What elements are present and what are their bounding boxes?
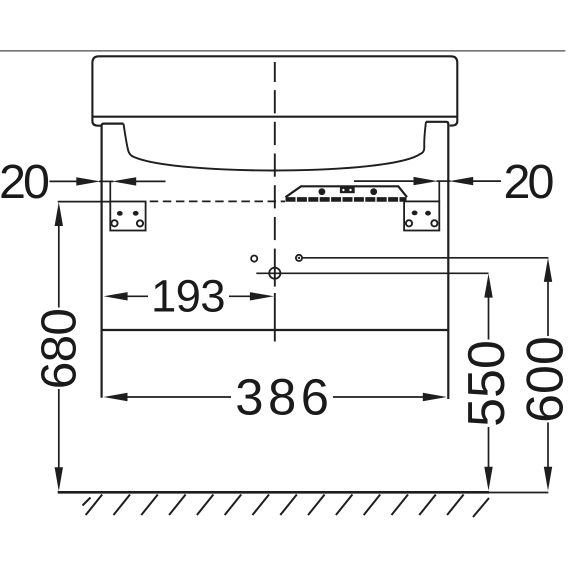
floor hatching (83, 495, 490, 518)
dim 20 right (354, 180, 415, 182)
ref line 550 (256, 272, 488, 274)
bracket right (404, 201, 439, 230)
dim 193 (104, 292, 128, 300)
dim 550 (484, 274, 492, 298)
wall rail bolt right (370, 188, 377, 195)
washbasin outer rim (92, 56, 457, 125)
dim 600 (544, 258, 552, 282)
extension 20 left (109, 181, 111, 201)
svg-text:600: 600 (516, 336, 568, 423)
svg-text:386: 386 (235, 369, 333, 426)
cabinet right side + pedestal top right (426, 122, 448, 399)
wall rail serrated base (286, 197, 407, 202)
bracket left (110, 202, 145, 231)
dim 680 (55, 202, 63, 226)
floor line (58, 491, 489, 494)
wall line (0, 50, 565, 52)
cabinet left side + pedestal top left (102, 124, 124, 398)
extension 20 right (438, 181, 440, 201)
washbasin bottom chord (92, 116, 457, 118)
svg-text:20: 20 (0, 155, 49, 209)
centerline dashed (274, 62, 276, 342)
hidden cabinet top dashed (150, 200, 285, 202)
svg-text:193: 193 (151, 271, 225, 322)
dim 386 (104, 393, 128, 401)
svg-text:20: 20 (504, 155, 554, 209)
hole circle plain (251, 256, 257, 262)
drain crosshair (269, 268, 280, 279)
cabinet bottom (102, 329, 450, 331)
wall rail bolt left (319, 188, 326, 195)
ref line 600 (303, 257, 549, 259)
wall rail (286, 186, 408, 197)
svg-text:550: 550 (458, 340, 516, 427)
basin bowl curve (124, 122, 427, 171)
wall rail clip (340, 186, 355, 194)
svg-text:680: 680 (31, 309, 86, 390)
hole circle with dot (296, 255, 302, 261)
extension line 680 top (58, 201, 111, 203)
